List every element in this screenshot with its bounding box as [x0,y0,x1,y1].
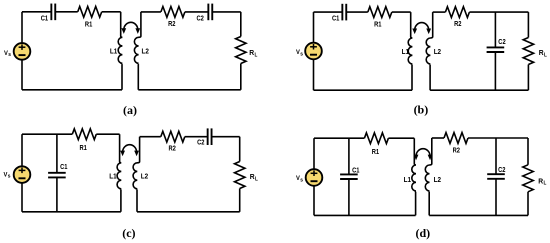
resistor R2 (c) [161,131,185,142]
wire top-left (a) [22,11,51,13]
resistor R1 (b) [368,7,392,18]
svg-text:s: s [300,51,303,57]
resistor R1 (d) [364,133,388,144]
wire L2-R2 (c) [140,136,161,138]
mutual coupling arrows (d) [416,149,430,156]
load resistor RL (d) [527,138,529,165]
mutual coupling arrows (a) [124,22,138,29]
inductor L2 (c) [133,137,140,212]
wire C2-RL (c) [212,136,240,138]
voltage source Vs (a) [21,12,23,43]
svg-text:R2: R2 [169,144,176,153]
inductor L1 (a) [118,12,122,90]
svg-text:L1: L1 [109,172,116,181]
wire L2-R2 (d) [432,137,444,139]
svg-text:R1: R1 [374,19,381,28]
svg-text:s: s [8,174,11,180]
svg-text:C2: C2 [197,138,204,147]
capacitor C2 (a) [207,4,209,21]
capacitor C1 shunt branch (c) [56,134,58,173]
wire C1-R1 (a) [55,11,77,13]
resistor R1 (a) [78,6,102,17]
wire bottom-left (d) [314,214,416,216]
wire top-left (d) [314,137,364,139]
svg-text:R2: R2 [453,145,460,154]
wire L2-R2 (a) [141,11,161,13]
resistor R2 (d) [444,133,468,144]
svg-text:R1: R1 [80,143,87,152]
wire R2-C2 (c) [185,136,208,138]
svg-text:R2: R2 [168,19,175,28]
inductor L2 (a) [134,12,141,90]
wire R2-C2 (a) [185,11,208,13]
mutual coupling arrows (c) [123,145,137,152]
wire R2-RL top (d) [468,137,528,139]
wire R1-L1 (c) [96,133,119,135]
wire bottom-left (b) [314,89,413,91]
wire L2-R2 (b) [433,11,446,13]
wire top-left (c) [22,133,72,135]
svg-text:(b): (b) [414,102,429,116]
capacitor C1 (a) [50,4,52,21]
svg-text:s: s [300,178,303,184]
capacitor C2 shunt branch (b) [494,12,496,47]
svg-text:C2: C2 [498,37,505,46]
svg-text:C1: C1 [332,14,339,23]
wire bottom-right (a) [138,89,241,91]
inductor L1 (c) [117,134,121,212]
wire top-left (b) [314,11,343,13]
wire R1-L1 (b) [392,11,411,13]
svg-text:R1: R1 [85,20,92,29]
svg-text:C2: C2 [197,13,204,22]
wire C2-RL (a) [212,11,241,13]
wire bottom-left (a) [22,89,122,91]
capacitor C2 (c) [207,128,209,145]
svg-text:R2: R2 [454,19,461,28]
svg-text:L2: L2 [434,175,441,184]
wire R1-L1 (a) [102,11,121,13]
wire R2-RL top (b) [469,11,528,13]
mutual coupling arrows (b) [415,23,429,30]
load resistor RL (a) [240,12,242,37]
load resistor RL (b) [527,12,529,37]
svg-text:L2: L2 [141,172,148,181]
svg-text:C1: C1 [41,14,48,23]
voltage source Vs (c) [21,134,23,166]
svg-text:s: s [8,52,11,58]
inductor L2 (b) [426,12,433,90]
capacitor C2 shunt branch (d) [495,138,497,174]
svg-text:L2: L2 [142,46,149,55]
inductor L1 (d) [412,138,416,215]
resistor R2 (b) [445,7,469,18]
svg-text:R1: R1 [372,147,379,156]
wire bottom-right (c) [137,211,240,213]
svg-text:L2: L2 [434,47,441,56]
capacitor C1 (b) [341,4,343,21]
wire C1-R1 (b) [346,11,368,13]
voltage source Vs (b) [313,12,315,43]
svg-text:L1: L1 [110,46,117,55]
inductor L2 (d) [425,138,432,215]
inductor L1 (b) [408,12,412,90]
svg-text:(c): (c) [122,226,135,240]
wire bottom-right (b) [430,89,528,91]
svg-text:(d): (d) [415,226,430,240]
resistor R2 (a) [161,7,185,18]
wire bottom-left (c) [22,211,121,213]
capacitor C1 shunt branch (d) [348,138,350,174]
svg-text:C2: C2 [498,165,505,174]
svg-text:L1: L1 [404,175,411,184]
wire bottom-right (d) [429,214,528,216]
resistor R1 (c) [72,129,96,140]
svg-text:L1: L1 [402,47,409,56]
wire R1-L1 (d) [388,137,414,139]
svg-text:C1: C1 [352,165,359,174]
voltage source Vs (d) [313,138,315,169]
svg-text:C1: C1 [60,162,67,171]
svg-text:(a): (a) [123,103,137,117]
load resistor RL (c) [239,137,241,162]
